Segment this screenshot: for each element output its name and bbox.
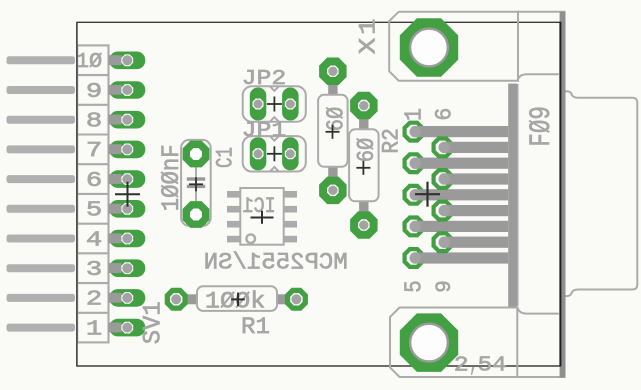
svg-text:IC1: IC1 [243, 193, 276, 219]
svg-text:MCP2551/SN: MCP2551/SN [204, 249, 348, 275]
svg-text:6: 6 [86, 169, 102, 193]
svg-text:1: 1 [356, 19, 382, 36]
svg-text:JP2: JP2 [242, 67, 287, 91]
svg-text:JP1: JP1 [242, 119, 287, 143]
svg-text:,: , [470, 353, 478, 377]
svg-text:9: 9 [86, 80, 102, 104]
svg-text:6Ø: 6Ø [354, 138, 381, 163]
svg-text:R2: R2 [379, 128, 406, 154]
svg-text:2: 2 [454, 353, 469, 377]
svg-text:FØ9: FØ9 [525, 106, 559, 147]
svg-text:1ØØnF: 1ØØnF [158, 144, 186, 211]
svg-text:1: 1 [401, 108, 428, 121]
svg-text:5: 5 [86, 199, 102, 223]
svg-text:7: 7 [86, 139, 102, 163]
svg-text:5: 5 [401, 280, 428, 293]
svg-text:2: 2 [86, 288, 102, 312]
svg-text:1ØØk: 1ØØk [205, 289, 266, 315]
svg-text:6Ø: 6Ø [323, 107, 350, 132]
svg-text:1: 1 [86, 317, 102, 341]
svg-text:C1: C1 [212, 147, 238, 168]
svg-text:R1: R1 [241, 314, 270, 341]
svg-text:3: 3 [86, 258, 102, 282]
svg-text:4: 4 [86, 228, 102, 252]
svg-text:SV1: SV1 [138, 301, 167, 344]
svg-text:6: 6 [432, 108, 458, 121]
svg-text:8: 8 [86, 110, 102, 134]
svg-text:9: 9 [432, 280, 457, 293]
svg-text:54: 54 [478, 353, 507, 377]
svg-text:1Ø: 1Ø [76, 50, 103, 74]
svg-text:X: X [356, 37, 382, 54]
